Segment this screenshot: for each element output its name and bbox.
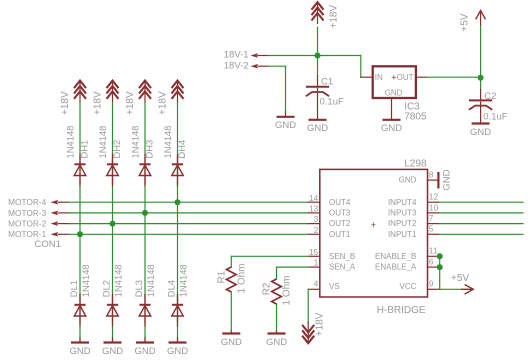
wire pin stub <box>428 288 439 290</box>
svg-text:7: 7 <box>429 213 434 223</box>
svg-text:GND: GND <box>385 88 403 97</box>
diode DH2 1N4148 <box>107 154 119 187</box>
svg-text:MOTOR-4: MOTOR-4 <box>8 197 46 207</box>
connector pin 18V-1 <box>251 53 269 58</box>
supply +5V (VCC arrow right) <box>461 285 473 295</box>
svg-text:3: 3 <box>314 214 319 224</box>
wire R2 to GND <box>276 304 278 331</box>
wire net MOTOR-1 <box>68 233 308 235</box>
svg-text:GND: GND <box>307 123 328 134</box>
wire +5V rail <box>480 25 482 77</box>
svg-text:2: 2 <box>314 225 319 235</box>
svg-text:ENABLE_A: ENABLE_A <box>375 263 417 272</box>
svg-text:11: 11 <box>429 246 438 256</box>
wire IC3 OUT pin <box>416 76 427 78</box>
wire C2 to GND <box>480 102 482 123</box>
svg-text:GND: GND <box>275 120 296 131</box>
ground GND (R1) <box>221 334 242 348</box>
svg-text:+18V: +18V <box>315 312 326 336</box>
svg-text:18V-1: 18V-1 <box>224 50 249 61</box>
ground GND (L298 pin 8, rotated) <box>438 169 452 190</box>
svg-text:INPUT4: INPUT4 <box>388 198 417 207</box>
svg-text:+18V: +18V <box>158 91 169 115</box>
connector CON1 pin MOTOR-3 <box>51 211 69 216</box>
svg-text:0.1uF: 0.1uF <box>320 96 344 107</box>
supply +18V (top) <box>312 2 324 24</box>
svg-text:DH1: DH1 <box>78 140 89 159</box>
junction MOTOR-3 / DL3 <box>142 210 148 216</box>
wire <box>360 56 362 78</box>
supply +5V (top right) <box>476 11 486 26</box>
connector pin 18V-2 <box>251 64 269 69</box>
svg-text:+18V: +18V <box>93 91 104 115</box>
svg-text:GND: GND <box>134 346 155 357</box>
diode DL2 1N4148 <box>107 294 119 327</box>
wire IC3 GND pin <box>391 98 393 120</box>
wire column 2 (DH2/DL2 net) <box>112 102 114 342</box>
svg-text:CON1: CON1 <box>35 239 61 250</box>
svg-text:IN: IN <box>375 73 383 82</box>
svg-text:GND: GND <box>399 176 417 185</box>
svg-text:OUT: OUT <box>397 73 414 82</box>
svg-text:R2: R2 <box>262 282 273 295</box>
wire net INPUT1 <box>438 233 523 235</box>
wire pin stub <box>308 266 320 268</box>
svg-text:SEN_B: SEN_B <box>329 252 355 261</box>
ground GND (DL3) <box>134 343 155 357</box>
wire pin stub <box>428 179 439 181</box>
wire 18V-2 down to GND <box>285 66 287 112</box>
svg-text:MOTOR-2: MOTOR-2 <box>8 219 46 229</box>
voltage regulator IC3 7805 <box>373 66 416 98</box>
wire net 18V-2 <box>269 65 286 67</box>
ground GND (DL4) <box>167 343 188 357</box>
svg-text:13: 13 <box>309 204 319 214</box>
wire pin stub <box>428 233 439 235</box>
wire SEN_B down to R1 <box>230 256 232 267</box>
wire pin stub <box>308 223 320 225</box>
svg-text:GND: GND <box>221 337 242 348</box>
wire net MOTOR-3 <box>68 212 308 214</box>
supply +18V (VS, pointing down) <box>302 321 314 343</box>
svg-text:4: 4 <box>314 278 319 288</box>
wire net INPUT4 <box>438 201 523 203</box>
svg-text:1N4148: 1N4148 <box>113 264 124 297</box>
wire pin stub <box>308 255 320 257</box>
svg-text:+18V: +18V <box>125 91 136 115</box>
svg-text:C1: C1 <box>321 77 333 88</box>
svg-text:1N4148: 1N4148 <box>145 264 156 297</box>
wire R1 to GND <box>230 292 232 331</box>
capacitor C1 0.1uF <box>306 87 329 96</box>
junction MOTOR-1 / DL1 <box>77 231 83 237</box>
wire VCC to +5V <box>438 288 461 290</box>
wire ENABLE_B/ENABLE_A/VCC net <box>439 256 441 289</box>
svg-text:GND: GND <box>266 337 287 348</box>
wire net +5V (OUT to junction) <box>427 76 481 78</box>
svg-text:DH2: DH2 <box>111 140 122 159</box>
svg-text:10: 10 <box>429 202 439 212</box>
svg-text:GND: GND <box>69 346 90 357</box>
diode DH1 1N4148 <box>74 154 86 187</box>
junction ENABLE_B <box>437 253 443 259</box>
ground GND (C1) <box>307 120 328 134</box>
junction ENABLE_A <box>437 264 443 270</box>
wire junction to C1 <box>317 56 319 76</box>
svg-text:DL4: DL4 <box>166 280 177 297</box>
wire net +18V (18V-1 to junction) <box>269 55 318 57</box>
svg-text:GND: GND <box>470 127 491 138</box>
svg-text:14: 14 <box>309 193 319 203</box>
supply +18V (column DH3) <box>139 81 151 103</box>
svg-text:GND: GND <box>442 169 453 190</box>
svg-text:7805: 7805 <box>404 112 427 123</box>
svg-text:1N4148: 1N4148 <box>178 264 189 297</box>
ground GND (R2) <box>266 334 287 348</box>
svg-text:1 Ohm: 1 Ohm <box>237 263 248 293</box>
junction MOTOR-4 / DL4 <box>175 199 181 205</box>
wire column 4 (DH4/DL4 net) <box>177 102 179 342</box>
svg-text:DH3: DH3 <box>143 140 154 159</box>
svg-text:OUT1: OUT1 <box>329 230 351 239</box>
svg-text:9: 9 <box>429 279 434 289</box>
wire column 3 (DH3/DL3 net) <box>144 102 146 342</box>
junction +5V / C2 <box>478 75 484 81</box>
svg-text:SEN_A: SEN_A <box>329 263 356 272</box>
svg-text:L298: L298 <box>404 159 427 170</box>
wire column 1 (DH1/DL1 net) <box>79 102 81 342</box>
diode DL4 1N4148 <box>172 294 184 327</box>
wire pin stub <box>428 201 439 203</box>
ground GND (DL2) <box>102 343 123 357</box>
resistor R2 1 Ohm <box>272 279 282 304</box>
wire net MOTOR-4 <box>68 201 308 203</box>
IC L298 H-BRIDGE <box>320 169 428 297</box>
svg-text:0.1uF: 0.1uF <box>483 111 507 122</box>
svg-text:1N4148: 1N4148 <box>65 126 76 159</box>
connector CON1 pin MOTOR-4 <box>51 200 69 205</box>
supply +18V (column DH4) <box>172 81 184 103</box>
svg-text:OUT3: OUT3 <box>329 209 351 218</box>
svg-text:VS: VS <box>329 282 340 291</box>
wire pin stub <box>308 212 320 214</box>
svg-text:1 Ohm: 1 Ohm <box>282 275 293 305</box>
svg-text:INPUT2: INPUT2 <box>388 219 417 228</box>
svg-text:H-BRIDGE: H-BRIDGE <box>377 305 426 316</box>
svg-text:+18V: +18V <box>329 5 340 29</box>
connector CON1 pin MOTOR-2 <box>51 221 69 226</box>
svg-text:INPUT1: INPUT1 <box>388 230 417 239</box>
wire C1 to GND <box>317 89 319 120</box>
wire net SEN_B <box>231 255 308 257</box>
ground GND (DL1) <box>69 343 90 357</box>
wire pin stub <box>308 233 320 235</box>
svg-text:6: 6 <box>429 257 434 267</box>
svg-text:MOTOR-3: MOTOR-3 <box>8 208 46 218</box>
wire pin stub <box>428 255 439 257</box>
svg-text:+18V: +18V <box>60 91 71 115</box>
svg-text:DL1: DL1 <box>68 280 79 297</box>
wire pin stub <box>428 223 439 225</box>
wire net VS to +18V <box>307 289 309 323</box>
svg-text:5: 5 <box>429 224 434 234</box>
diode DL1 1N4148 <box>74 294 86 327</box>
svg-text:R1: R1 <box>217 270 228 283</box>
svg-text:18V-2: 18V-2 <box>224 61 249 72</box>
resistor R1 1 Ohm <box>227 267 237 292</box>
wire net SEN_A <box>277 266 309 268</box>
svg-text:1N4148: 1N4148 <box>80 264 91 297</box>
wire pin stub <box>428 266 439 268</box>
svg-text:1N4148: 1N4148 <box>162 126 173 159</box>
svg-text:MOTOR-1: MOTOR-1 <box>8 229 46 239</box>
wire pin stub <box>308 288 320 290</box>
svg-text:1N4148: 1N4148 <box>130 126 141 159</box>
wire net +18V (junction to IC3) <box>318 55 361 57</box>
svg-text:DL2: DL2 <box>101 280 112 297</box>
junction +18V / 18V-1 / C1 <box>315 53 321 59</box>
ground GND (IC3) <box>381 120 402 134</box>
svg-text:OUT4: OUT4 <box>329 198 351 207</box>
capacitor C2 0.1uF <box>469 100 492 109</box>
svg-text:DL3: DL3 <box>133 280 144 297</box>
svg-text:+5V: +5V <box>451 273 469 284</box>
ground GND (18V-2) <box>275 117 296 131</box>
supply +18V (column DH1) <box>74 81 86 103</box>
junction MOTOR-2 / DL2 <box>110 221 116 227</box>
wire SEN_A down to R2 <box>276 267 278 279</box>
diode DH4 1N4148 <box>172 154 184 187</box>
wire junction to C2 <box>480 77 482 89</box>
wire pin stub <box>428 212 439 214</box>
svg-text:1: 1 <box>314 258 319 268</box>
svg-text:GND: GND <box>167 346 188 357</box>
svg-text:GND: GND <box>381 123 402 134</box>
svg-text:+5V: +5V <box>460 13 471 31</box>
svg-text:DH4: DH4 <box>176 140 187 159</box>
ground GND (C2) <box>470 124 491 138</box>
diode DH3 1N4148 <box>139 154 151 187</box>
svg-text:8: 8 <box>429 170 434 180</box>
wire net INPUT3 <box>438 212 523 214</box>
svg-text:+: + <box>371 220 376 230</box>
connector CON1 pin MOTOR-1 <box>51 232 69 237</box>
svg-text:12: 12 <box>429 192 439 202</box>
svg-text:1N4148: 1N4148 <box>97 126 108 159</box>
supply +18V (column DH2) <box>107 81 119 103</box>
wire net INPUT2 <box>438 223 523 225</box>
svg-text:ENABLE_B: ENABLE_B <box>375 252 416 261</box>
svg-text:15: 15 <box>309 247 319 257</box>
svg-text:OUT2: OUT2 <box>329 219 351 228</box>
wire +18V rail down to junction <box>317 27 319 55</box>
svg-text:VCC: VCC <box>400 282 417 291</box>
svg-text:C2: C2 <box>484 91 496 102</box>
svg-text:GND: GND <box>102 346 123 357</box>
diode DL3 1N4148 <box>139 294 151 327</box>
svg-text:INPUT3: INPUT3 <box>388 209 417 218</box>
wire net MOTOR-2 <box>68 223 308 225</box>
wire pin stub <box>308 201 320 203</box>
